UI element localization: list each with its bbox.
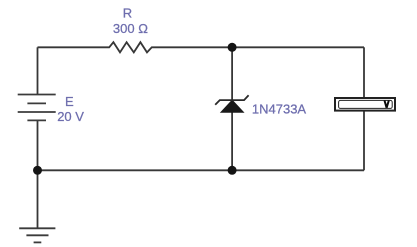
svg-text:E: E bbox=[65, 94, 74, 109]
svg-text:20 V: 20 V bbox=[57, 109, 84, 124]
svg-text:R: R bbox=[123, 6, 132, 21]
svg-text:300 Ω: 300 Ω bbox=[113, 21, 148, 36]
svg-text:1N4733A: 1N4733A bbox=[252, 102, 307, 117]
